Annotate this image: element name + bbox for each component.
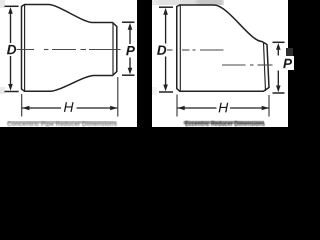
small-bore centerline (right figure) bbox=[222, 64, 273, 66]
left white image panel (concentric reducer) bbox=[0, 0, 137, 127]
label D (right) bbox=[157, 46, 166, 55]
arrowhead H left (left figure) bbox=[22, 106, 29, 111]
large end weld-bevel line (right figure) bbox=[179, 5, 181, 91]
eccentric reducer body outline bbox=[177, 5, 269, 91]
shadow fragment above P label box bbox=[286, 48, 293, 56]
arrowhead D top (left) bbox=[8, 7, 13, 14]
arrowhead D top (right) bbox=[163, 8, 168, 15]
arrowhead P bottom (left) bbox=[128, 68, 133, 75]
large-bore centerline (right figure) bbox=[167, 49, 224, 51]
right white image panel (eccentric reducer) bbox=[152, 0, 288, 127]
arrowhead H right (right figure) bbox=[262, 106, 269, 111]
dimension D (right figure) bbox=[159, 7, 173, 92]
dimension H (right figure) extension lines bbox=[177, 95, 269, 117]
dimension H (right figure) line bbox=[178, 107, 269, 109]
arrowhead D bottom (left) bbox=[8, 84, 13, 91]
svg-text:Concentric Pipe Reducer Dimens: Concentric Pipe Reducer Dimensions bbox=[7, 121, 117, 128]
dimension P (left) line bbox=[129, 28, 131, 70]
arrowhead P bottom (right) bbox=[276, 86, 281, 93]
dimension P (left figure) bbox=[122, 22, 135, 75]
dimension D (right) line bbox=[165, 13, 167, 86]
large end weld-bevel line bbox=[24, 5, 26, 92]
arrowhead P top (left) bbox=[128, 23, 133, 30]
dimension H (left figure) line bbox=[22, 107, 117, 109]
centerline (dash-dot) bbox=[17, 49, 121, 51]
dimension P (right) line bbox=[277, 48, 279, 88]
concentric reducer body outline bbox=[22, 5, 117, 92]
arrowhead P top (right) bbox=[276, 43, 281, 50]
label P (left) bbox=[126, 46, 135, 55]
arrowhead H left (right figure) bbox=[178, 106, 185, 111]
gray fragment left edge near D bottom tick bbox=[0, 87, 5, 94]
small end weld-bevel line (right figure) bbox=[264, 43, 266, 92]
label D (left) bbox=[7, 45, 16, 54]
dimension D (left figure) bbox=[5, 6, 19, 91]
dimension D (left) line bbox=[10, 12, 12, 85]
dimension P (right figure) bbox=[273, 42, 285, 93]
dimension H (left figure) extension lines bbox=[22, 77, 118, 117]
faint gray fragment left edge of right panel bbox=[152, 87, 157, 95]
small end weld-bevel line bbox=[112, 23, 114, 75]
label P (right, on white box) bbox=[283, 59, 292, 68]
gray strip along top of right panel bbox=[152, 0, 224, 5]
caption base band under right figure bbox=[184, 121, 265, 124]
label H (right) bbox=[219, 103, 229, 113]
arrowhead H right (left figure) bbox=[110, 106, 117, 111]
white label box for P (right figure) overflowing panel edge bbox=[281, 56, 294, 70]
caption base band under left figure bbox=[8, 121, 117, 124]
gray fragment top-left corner bbox=[0, 0, 5, 8]
svg-text:Eccentric Reducer Dimensions: Eccentric Reducer Dimensions bbox=[185, 121, 265, 128]
arrowhead D bottom (right) bbox=[163, 85, 168, 92]
label H (left) bbox=[64, 102, 74, 112]
